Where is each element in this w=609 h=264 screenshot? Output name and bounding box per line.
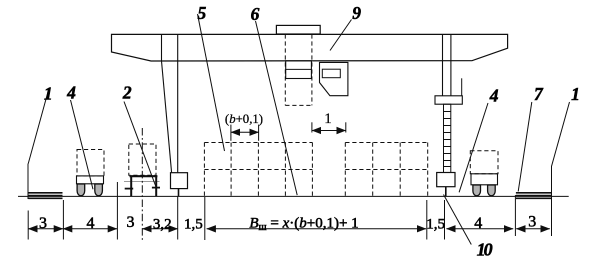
dim arrow 4 left bbox=[63, 228, 117, 230]
hoist block bbox=[286, 61, 312, 79]
dim 1 arrow bbox=[312, 130, 346, 132]
left leg of crane bbox=[162, 34, 178, 173]
rail stack 1 left end wall bbox=[27, 164, 29, 199]
leader 2 bbox=[124, 102, 156, 188]
ground line bbox=[18, 195, 569, 197]
trolley hoist dashed frame bbox=[285, 34, 312, 105]
svg-text:1: 1 bbox=[324, 111, 332, 127]
svg-text:6: 6 bbox=[251, 4, 260, 24]
right cargo stack (dashed grid) bbox=[345, 143, 427, 196]
wagon 4 left wheels bbox=[77, 184, 102, 196]
svg-text:1,5: 1,5 bbox=[184, 216, 203, 232]
svg-text:3: 3 bbox=[528, 214, 536, 231]
svg-text:2: 2 bbox=[122, 83, 132, 103]
leader 9 bbox=[330, 20, 352, 51]
rail stack 1 right end wall bbox=[551, 166, 553, 236]
right leg ladder mast bbox=[444, 104, 451, 172]
right leg crossbar bbox=[435, 96, 462, 104]
leader 4 left bbox=[71, 100, 94, 189]
left leg travel bogie bbox=[171, 173, 188, 189]
dim ticks bottom bbox=[27, 211, 29, 240]
dim arrow B span bbox=[207, 228, 427, 230]
leader 1 right bbox=[552, 102, 570, 166]
trestle 2 top bar bbox=[130, 175, 158, 177]
trestle 2 thin shelf line bbox=[124, 181, 160, 183]
right leg cable line bbox=[461, 78, 463, 96]
trestle 2 feet bbox=[125, 188, 160, 189]
right leg bottom block 10 bbox=[437, 173, 455, 187]
leader 5 bbox=[198, 14, 225, 151]
hoist block mid line bbox=[286, 68, 312, 70]
svg-text:3,2: 3,2 bbox=[153, 217, 172, 233]
dim b+0,1 arrow bbox=[231, 131, 259, 133]
svg-text:5: 5 bbox=[198, 3, 207, 23]
rail stack 1 left bbox=[28, 193, 62, 199]
dim 1 ticks bbox=[311, 122, 313, 132]
grab device bbox=[320, 62, 348, 95]
wagon 4 right wheels bbox=[473, 185, 495, 196]
rail stack 1 right bbox=[516, 193, 551, 199]
svg-text:4: 4 bbox=[66, 83, 76, 103]
trestle 2 centerline bbox=[141, 128, 143, 241]
right block wheel stub bbox=[445, 187, 447, 197]
svg-text:4: 4 bbox=[489, 86, 499, 106]
wagon 4 right flat car bbox=[471, 174, 498, 185]
wagon 4 left flat car bbox=[77, 176, 104, 184]
grab window bbox=[322, 69, 340, 78]
left cargo stack (dashed grid) bbox=[204, 143, 312, 196]
svg-text:3: 3 bbox=[127, 214, 135, 231]
trolley cab 9 bbox=[276, 25, 320, 34]
leader 1 left bbox=[28, 90, 48, 164]
dim arrow 3 left bbox=[28, 228, 63, 230]
svg-text:4: 4 bbox=[87, 215, 95, 232]
svg-text:3: 3 bbox=[39, 215, 47, 232]
trestle 2 dashed outline bbox=[129, 144, 156, 175]
svg-text:1,5: 1,5 bbox=[426, 216, 445, 232]
svg-text:10: 10 bbox=[477, 239, 493, 259]
leader 10 bbox=[444, 195, 472, 245]
dim arrow 3,2 bbox=[142, 228, 177, 230]
svg-text:9: 9 bbox=[352, 3, 361, 23]
dim b+0,1 ticks bbox=[230, 125, 232, 141]
trestle 2 legs bbox=[131, 176, 156, 196]
svg-text:4: 4 bbox=[474, 215, 482, 232]
leader 7 bbox=[518, 102, 532, 191]
dim arrow 4 right bbox=[446, 228, 513, 230]
wagon 4 right dashed outline bbox=[470, 151, 498, 174]
svg-text:(b+0,1): (b+0,1) bbox=[225, 112, 263, 126]
svg-text:1: 1 bbox=[44, 84, 53, 104]
svg-text:1: 1 bbox=[571, 84, 580, 104]
right leg of crane bbox=[443, 34, 451, 96]
leader 6 bbox=[256, 21, 298, 195]
leader 4 right bbox=[459, 103, 488, 192]
left bogie wheel stub bbox=[178, 189, 180, 197]
dim arrow 3 right bbox=[516, 228, 550, 230]
wagon 4 left dashed outline bbox=[77, 150, 104, 177]
svg-text:Bш = x·(b+0,1)+ 1: Bш = x·(b+0,1)+ 1 bbox=[249, 216, 358, 234]
crane girder (bridge) bbox=[112, 34, 508, 61]
svg-text:7: 7 bbox=[534, 84, 544, 104]
